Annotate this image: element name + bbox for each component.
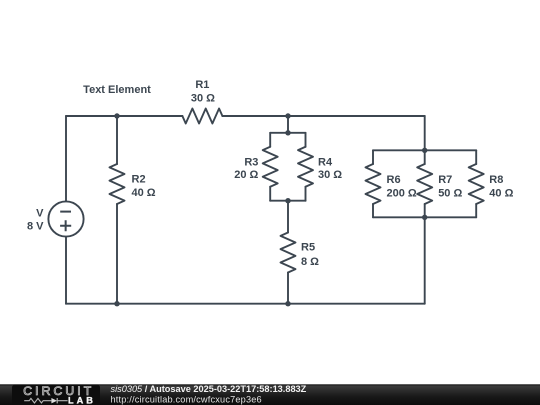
wire: left vertical from top-left corner down to V source top terminal <box>65 116 67 201</box>
svg-text:40 Ω: 40 Ω <box>489 188 513 200</box>
svg-text:R3: R3 <box>244 157 258 169</box>
wire: R5 bottom lead down to bottom rail <box>287 273 289 304</box>
node junction dot at R6/R7/R8 box bottom <box>422 215 427 220</box>
svg-text:R1: R1 <box>195 79 209 91</box>
resistor R1 <box>182 109 222 124</box>
svg-text:50 Ω: 50 Ω <box>438 188 462 200</box>
resistor R6 <box>366 164 381 204</box>
svg-text:R2: R2 <box>132 173 146 185</box>
node junction dot at R6/R7/R8 box top <box>422 148 427 153</box>
svg-text:20 Ω: 20 Ω <box>234 169 258 181</box>
wire: R4 top lead <box>305 133 307 147</box>
wire: top rail right segment from R1 right lead through node C to top-right corner <box>222 115 424 117</box>
wire: R7 bottom lead <box>424 204 426 217</box>
resistor R5 <box>281 233 296 273</box>
resistor R3 <box>263 147 278 187</box>
logo diode symbol <box>51 398 57 403</box>
wire: R8 top lead <box>475 150 477 164</box>
wire: R3 top lead <box>269 133 271 147</box>
resistor R7 <box>417 164 432 204</box>
wire: R5 top lead from R3/R4 bottom node <box>287 201 289 233</box>
node junction dot at R3/R4 box bottom <box>285 198 290 203</box>
svg-text:R6: R6 <box>387 174 401 186</box>
wire: R3/R4 box top rail <box>270 132 305 134</box>
svg-text:200 Ω: 200 Ω <box>387 188 417 200</box>
logo resistor squiggle <box>24 398 51 403</box>
svg-text:40 Ω: 40 Ω <box>132 187 156 199</box>
svg-text:R8: R8 <box>489 174 503 186</box>
node C junction dot (R3-R4 branch / top rail) <box>285 113 290 118</box>
voltage source V plus sign <box>60 220 71 231</box>
wire: R6/R7/R8 box top rail <box>373 149 476 151</box>
svg-text:30 Ω: 30 Ω <box>318 169 342 181</box>
svg-text:LAB: LAB <box>68 395 96 405</box>
wire: R8 bottom lead <box>475 204 477 217</box>
node junction dot at R3/R4 box top <box>285 130 290 135</box>
voltage source V minus sign <box>60 211 71 213</box>
voltage source V body <box>48 201 83 236</box>
svg-text:Text Element: Text Element <box>83 84 151 96</box>
resistor R4 <box>298 147 313 187</box>
svg-text:V: V <box>36 207 44 219</box>
wire: R2 top lead from node B <box>116 116 118 164</box>
node B junction dot (R2 / top rail) <box>114 113 119 118</box>
svg-text:8 Ω: 8 Ω <box>301 256 319 268</box>
svg-text:R4: R4 <box>318 157 333 169</box>
wire: R6 bottom lead <box>372 204 374 217</box>
node junction dot R5 bottom on bottom rail <box>285 301 290 306</box>
wire: bottom rail <box>66 303 425 305</box>
svg-text:R5: R5 <box>301 242 315 254</box>
svg-text:30 Ω: 30 Ω <box>191 93 215 105</box>
node junction dot R2 bottom on bottom rail <box>114 301 119 306</box>
wire: R2 bottom lead down to bottom rail <box>116 204 118 304</box>
wire: R3/R4 box bottom rail <box>270 200 305 202</box>
wire: top rail left segment from corner through node B to R1 left lead <box>66 115 182 117</box>
footer logo chip background <box>12 385 100 405</box>
wire: R6/R7/R8 box bottom rail <box>373 216 476 218</box>
wire: R3 bottom lead <box>269 187 271 201</box>
wire: right vertical from top-right corner down to R6/R7/R8 box top rail <box>424 116 426 150</box>
svg-text:R7: R7 <box>438 174 452 186</box>
resistor R2 <box>110 164 125 204</box>
resistor R8 <box>469 164 484 204</box>
wire: R4 bottom lead <box>305 187 307 201</box>
wire: left vertical from V source bottom terminal to bottom-left corner <box>65 237 67 304</box>
svg-text:http://circuitlab.com/cwfcxuc7: http://circuitlab.com/cwfcxuc7ep3e6 <box>111 395 262 405</box>
svg-text:8 V: 8 V <box>27 221 44 233</box>
wire: stub from node C down to parallel box top rail <box>287 116 289 133</box>
svg-text:sis0305 / Autosave 2025-03-22T: sis0305 / Autosave 2025-03-22T17:58:13.8… <box>111 384 307 394</box>
wire: R6 top lead <box>372 150 374 164</box>
wire: right vertical from box bottom rail down to bottom-right corner <box>424 217 426 303</box>
wire: R7 top lead <box>424 150 426 164</box>
